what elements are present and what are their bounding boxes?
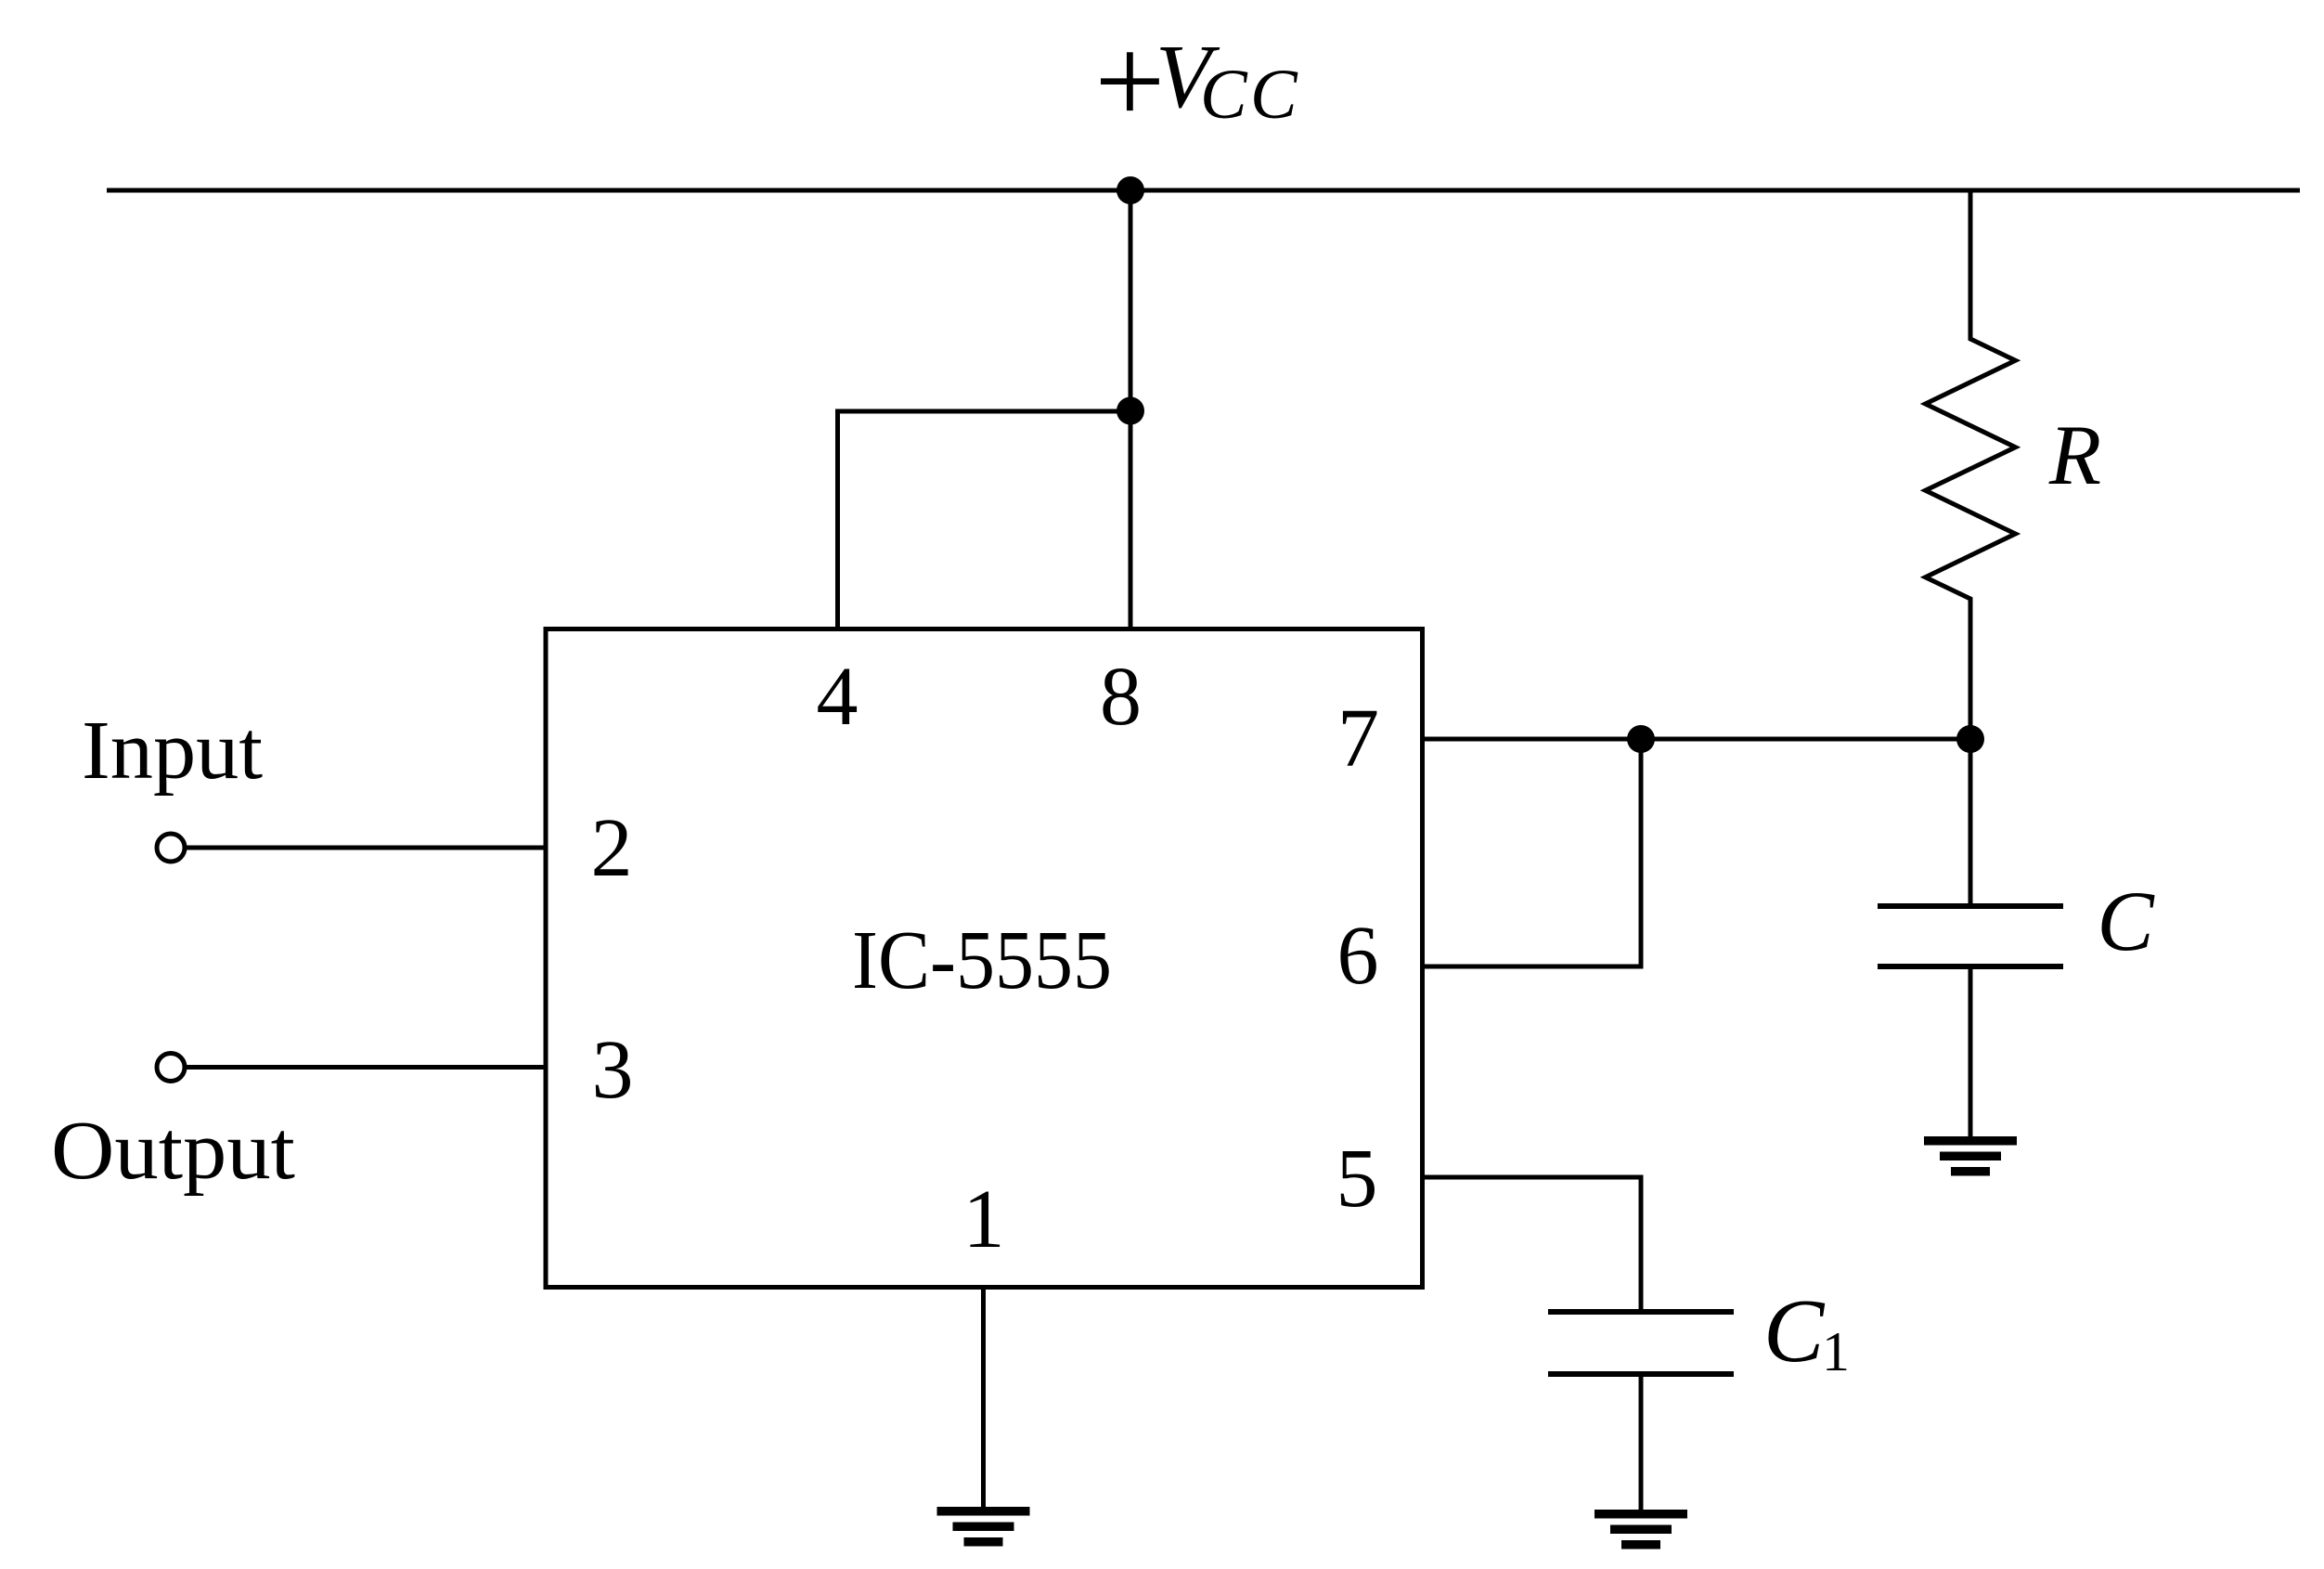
svg-text:IC-5555: IC-5555 <box>852 914 1112 1006</box>
wire pin 1 down <box>981 1288 986 1508</box>
svg-text:CC: CC <box>1200 56 1300 134</box>
wire input to pin 2 <box>187 846 546 850</box>
svg-text:1: 1 <box>963 1174 1005 1265</box>
capacitor C1 plates <box>1548 1309 1734 1315</box>
wire pin 8 riser to rail <box>1129 190 1133 629</box>
svg-text:6: 6 <box>1337 910 1379 1002</box>
svg-text:2: 2 <box>591 802 633 894</box>
svg-text:4: 4 <box>817 651 859 743</box>
svg-text:C: C <box>2097 874 2155 968</box>
svg-text:R: R <box>2048 408 2101 502</box>
svg-text:C: C <box>1763 1281 1826 1381</box>
terminal input circle <box>157 834 185 862</box>
wire pin 4 riser and horizontal to pin8 riser <box>838 411 1131 629</box>
capacitor C plates <box>1878 903 2063 909</box>
wire C to ground <box>1969 969 1973 1137</box>
terminal output circle <box>157 1054 185 1082</box>
junction dot pin4/pin8 <box>1117 397 1144 425</box>
wire pin 5 to C1 <box>1423 1177 1642 1312</box>
ground under capacitor C1 <box>1595 1510 1687 1550</box>
svg-text:1: 1 <box>1822 1321 1850 1382</box>
wire Vcc rail <box>107 188 2300 193</box>
svg-text:7: 7 <box>1337 693 1379 784</box>
IC-5555 box U1 <box>546 629 1423 1288</box>
svg-text:Output: Output <box>51 1105 295 1197</box>
wire output to pin 3 <box>187 1065 546 1070</box>
svg-text:8: 8 <box>1100 651 1142 743</box>
wire pin 6 up to pin7 node <box>1423 739 1642 966</box>
wire C1 to ground <box>1639 1377 1644 1511</box>
junction dot pin7/pin6 node <box>1627 725 1655 753</box>
ground under capacitor C <box>1924 1136 2017 1176</box>
resistor R zigzag <box>1926 190 2016 739</box>
wire pin 7 to node <box>1423 737 1971 742</box>
svg-text:5: 5 <box>1336 1133 1378 1225</box>
svg-text:3: 3 <box>592 1024 634 1116</box>
svg-text:Input: Input <box>82 705 263 797</box>
junction dot at rail <box>1117 176 1144 204</box>
ground under pin 1 <box>937 1507 1030 1547</box>
junction dot pin7/R/C node <box>1956 725 1984 753</box>
wire node to capacitor C <box>1969 739 1973 904</box>
